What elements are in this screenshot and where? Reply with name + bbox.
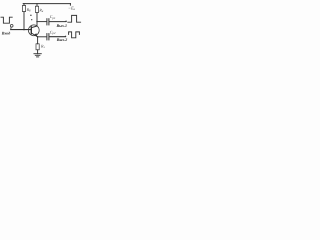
resistor R3 (Re) body [36,44,39,50]
node emitter junction dot [37,36,38,37]
node collector junction dot [36,21,37,22]
wire capacitor C1 to output 1 [49,21,65,23]
output 1 terminal dot [65,21,67,23]
output 1 pulse waveform [68,15,81,22]
capacitor C2 left plate [46,34,48,40]
svg-text:Вход: Вход [1,31,10,36]
transistor emitter arrow (PNP) [34,33,37,37]
wire input terminal lead [10,27,12,29]
ground bar 3 [37,56,39,58]
wire R2 top stub [36,4,38,7]
wire R2 bottom lead / collector lead [36,13,38,27]
wire R1 bottom lead to base node [23,12,25,30]
svg-text:Rб: Rб [26,7,31,13]
input pulse waveform [1,17,12,23]
label T transistor speck [30,15,32,16]
svg-text:Cр2: Cр2 [50,30,56,36]
wire Re to ground [37,50,39,54]
capacitor C1 left plate [46,19,48,25]
svg-text:Rк: Rк [38,8,43,14]
wire emitter to capacitor C2 [38,36,47,38]
wire R1 top stub [23,4,25,6]
node base junction dot [23,29,24,30]
wire capacitor C2 to output 2 [49,36,65,38]
output 2 terminal dot [65,36,67,38]
wire emitter down lead [37,37,39,44]
transistor base bar [30,27,32,34]
transistor collector slant [32,26,38,28]
svg-text:Вых.2: Вых.2 [56,37,67,42]
output 2 pulse waveform [69,32,80,38]
svg-text:Cр1: Cр1 [50,14,56,20]
wire top supply rail [23,3,70,5]
wire input to base [11,29,32,31]
svg-text:Вых.1: Вых.1 [56,23,67,28]
ground bar 2 [35,54,40,56]
input terminal circle [10,24,13,27]
svg-text:Rэ: Rэ [40,43,45,49]
ground bar 1 [34,53,41,55]
wire collector to capacitor C1 [37,21,47,23]
resistor R2 (Rk) body [35,6,38,12]
resistor R1 (Rb) body [22,5,25,11]
svg-text:−Eк: −Eк [68,5,76,11]
capacitor C1 right plate [48,19,50,25]
power terminal -Ek tick [69,4,71,6]
transistor Q1 circle [28,25,39,36]
capacitor C2 right plate [48,34,50,40]
label T transistor speck 2 [31,19,32,20]
transistor emitter slant [32,33,38,37]
